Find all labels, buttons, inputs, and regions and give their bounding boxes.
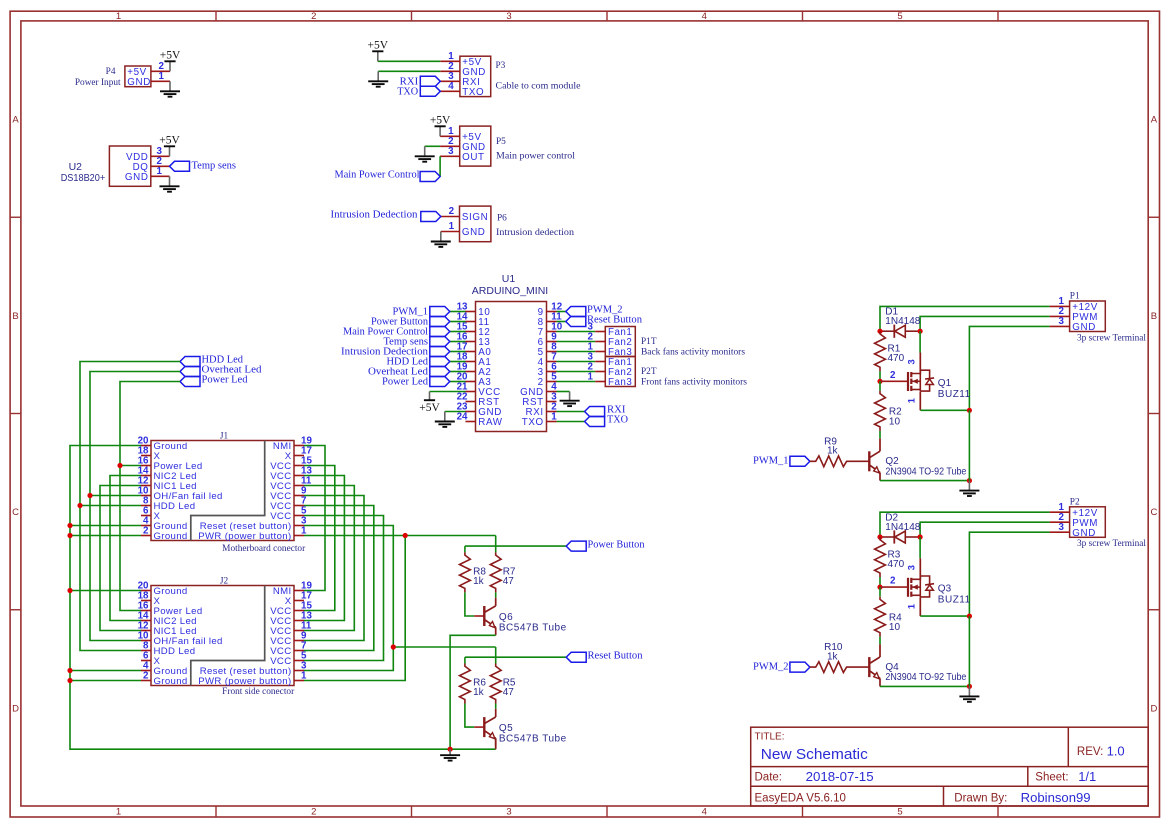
J2 pin 1 stub [294, 680, 304, 682]
svg-text:C: C [12, 507, 19, 518]
wire Intrusion Dedection to U1 [450, 351, 466, 353]
MOSFET Q3 BUZ11 [908, 576, 934, 597]
svg-text:U1: U1 [502, 273, 516, 285]
svg-text:Ground: Ground [154, 676, 188, 687]
wire emitter rail [880, 685, 969, 687]
net port flag Overheat Led at U1 [430, 367, 450, 377]
svg-text:3: 3 [448, 146, 454, 157]
net port flag Reset Button [566, 652, 586, 662]
wire R7 to Q6 collector [495, 592, 497, 597]
svg-text:BC547B Tube: BC547B Tube [499, 733, 567, 744]
U1 pin 12 stub [547, 311, 557, 313]
wire [879, 577, 881, 587]
P1T pin 3 stub [595, 331, 605, 333]
junction [877, 585, 882, 590]
U1 pin 11 stub [547, 321, 557, 323]
P3 pin 3 stub [440, 80, 460, 82]
svg-text:ARDUINO_MINI: ARDUINO_MINI [472, 285, 548, 297]
svg-text:3: 3 [907, 359, 917, 364]
svg-text:GND: GND [462, 227, 486, 238]
net port flag RXI at P3 [420, 76, 440, 86]
J2 pin 11 stub [294, 630, 304, 632]
svg-text:A: A [1151, 114, 1158, 125]
J1 pin 10 stub [141, 495, 151, 497]
J2 pin 4 stub [141, 670, 151, 672]
svg-text:SIGN: SIGN [462, 212, 488, 223]
wire +5V to P3 pin1 [378, 60, 441, 62]
wire D1 to Q1 drain [919, 331, 921, 352]
Q6 base lead [474, 615, 484, 617]
svg-text:10: 10 [889, 622, 901, 633]
svg-text:Drawn By:: Drawn By: [954, 793, 1007, 805]
svg-text:1: 1 [159, 71, 165, 82]
svg-text:470: 470 [888, 559, 905, 570]
wire Reset branch to R5 [393, 646, 495, 648]
J2 pin 17 stub [294, 600, 304, 602]
resistor R3 [875, 537, 886, 577]
Q3 gate lead [880, 586, 908, 588]
J1 pin 11 stub [294, 485, 304, 487]
P6 pin 1 stub [441, 231, 460, 233]
svg-text:GND: GND [1072, 322, 1096, 333]
junction [967, 478, 972, 483]
Q1 source lead [919, 391, 921, 410]
wire to R8 top [464, 546, 466, 552]
J1 pin 5 stub [294, 515, 304, 517]
wire PWM P2 [920, 522, 1050, 537]
svg-text:47: 47 [503, 687, 515, 698]
svg-text:P4: P4 [106, 67, 116, 77]
U1 pin 19 stub [466, 371, 476, 373]
svg-text:47: 47 [503, 576, 515, 587]
svg-text:J1: J1 [220, 432, 229, 442]
P2T pin 1 stub [595, 381, 605, 383]
U1 pin 4 stub [547, 391, 557, 393]
J1 pin 8 stub [141, 505, 151, 507]
IC U2 DS18B20+ [109, 146, 150, 186]
wire [879, 431, 881, 439]
wire Ground branch [70, 535, 141, 537]
wire PWR net to J2 [304, 536, 405, 681]
svg-text:D: D [1150, 703, 1157, 714]
svg-text:1: 1 [301, 525, 307, 536]
Q1 gate lead [880, 380, 908, 382]
wire source to GND net [920, 615, 969, 617]
border tick bottom [411, 806, 413, 817]
P2 pin 1 stub [1050, 511, 1070, 513]
svg-text:B: B [12, 311, 18, 322]
resistor R7 [490, 552, 501, 592]
wire U1 to fan connector row 4 [557, 361, 596, 363]
wire [879, 637, 881, 645]
junction [117, 463, 122, 468]
svg-text:P2T: P2T [641, 367, 657, 377]
J2 pin 2 stub [141, 680, 151, 682]
svg-text:+5V: +5V [368, 40, 389, 52]
junction [77, 503, 82, 508]
P5 pin 1 stub [440, 135, 460, 137]
U1 pin 7 stub [547, 361, 557, 363]
net port flag TXO at U1 [585, 417, 605, 427]
J2 pin 10 stub [141, 640, 151, 642]
svg-text:+5V: +5V [419, 402, 440, 414]
wire Ground branch [70, 670, 141, 672]
wire Power Button to U1 [450, 321, 466, 323]
junction [67, 588, 72, 593]
+5V net flag at P4 [160, 50, 181, 72]
+5V net flag at P5 [430, 115, 451, 137]
svg-text:A: A [12, 114, 19, 125]
ground at P3 [368, 71, 388, 86]
wire Overheat Led to J1 pin10 [90, 495, 141, 497]
U1 pin 16 stub [466, 341, 476, 343]
wire Overheat Led net [90, 372, 180, 641]
J2 pin 12 stub [141, 630, 151, 632]
svg-text:BUZ11: BUZ11 [938, 595, 971, 606]
P4 pin 2 stub [151, 70, 170, 72]
wire +5V to U1 VCC [430, 391, 466, 393]
wire [879, 371, 881, 381]
resistor R8 [460, 552, 471, 592]
svg-text:GND: GND [125, 172, 149, 183]
U1 pin 21 stub [466, 391, 476, 393]
U1 pin 18 stub [466, 361, 476, 363]
J1 pin 13 stub [294, 475, 304, 477]
P1 pin 2 stub [1050, 315, 1070, 317]
U1 pin 24 stub [466, 421, 476, 423]
border tick top [802, 11, 804, 21]
svg-text:C: C [1150, 507, 1157, 518]
svg-text:2: 2 [311, 807, 316, 818]
transistor Q4 2N3904 [869, 644, 880, 686]
svg-text:D: D [12, 703, 19, 714]
resistor R2 [875, 391, 886, 431]
P1 pin 1 stub [1050, 305, 1070, 307]
J1 pin 4 stub [141, 525, 151, 527]
U2 pin 3 stub [151, 155, 170, 157]
svg-text:TXO: TXO [462, 87, 484, 98]
connector P1T [605, 327, 635, 357]
svg-text:BC547B Tube: BC547B Tube [499, 622, 567, 633]
net port flag TXO at P3 [420, 86, 440, 96]
connector P6 [460, 206, 491, 242]
wire +12V P1 [880, 306, 1050, 331]
J1 pin 1 stub [294, 535, 304, 537]
J1 pin 2 stub [141, 535, 151, 537]
U1 pin 22 stub [466, 401, 476, 403]
svg-text:Power Button: Power Button [588, 539, 645, 550]
svg-text:2: 2 [890, 576, 896, 587]
J2 pin 7 stub [294, 650, 304, 652]
J2 pin 6 stub [141, 660, 151, 662]
connector J1 [151, 441, 294, 541]
junction [403, 533, 408, 538]
connector P2T [605, 357, 635, 387]
J2 pin 15 stub [294, 610, 304, 612]
Q3 drain lead [919, 558, 921, 579]
Q3 source lead [919, 597, 921, 616]
svg-text:24: 24 [457, 411, 468, 422]
svg-text:Q6: Q6 [499, 612, 513, 623]
svg-text:1: 1 [907, 604, 917, 609]
svg-text:1: 1 [116, 807, 121, 818]
wire +12V P2 [880, 512, 1050, 537]
resistor R6 [460, 664, 471, 704]
wire emitter rail [880, 480, 969, 482]
svg-text:1/1: 1/1 [1078, 769, 1096, 784]
J2 pin 9 stub [294, 640, 304, 642]
ground at U2 GND [160, 176, 180, 191]
wire PWR to R7 [495, 536, 497, 553]
svg-text:TXO: TXO [522, 417, 544, 428]
wire U1 to fan connector row 1 [557, 331, 596, 333]
svg-text:1k: 1k [473, 687, 485, 698]
P3 pin 4 stub [440, 90, 460, 92]
diode D1 1N4148 [880, 325, 920, 338]
J1 internal outline [191, 441, 265, 541]
U1 pin 15 stub [466, 331, 476, 333]
U1 pin 17 stub [466, 351, 476, 353]
wire U1 GND right [557, 391, 570, 393]
diode D2 1N4148 [880, 530, 920, 543]
svg-text:Intrusion Dedection: Intrusion Dedection [331, 210, 418, 221]
border tick top [997, 11, 999, 21]
+5V net flag at P3 [368, 40, 389, 62]
svg-text:Power Input: Power Input [75, 78, 121, 88]
svg-text:RAW: RAW [478, 417, 502, 428]
wire J1-J2 net VCC [304, 466, 335, 611]
svg-text:1.0: 1.0 [1107, 743, 1125, 758]
resistor R5 [490, 664, 501, 704]
svg-text:2: 2 [449, 206, 455, 217]
net port flag Reset Button at U1 [566, 317, 586, 327]
svg-text:2: 2 [143, 525, 149, 536]
P3 pin 2 stub [440, 70, 460, 72]
P1T pin 1 stub [595, 351, 605, 353]
junction [877, 534, 882, 539]
border tick top [606, 11, 608, 21]
net port flag PWM_1 [790, 456, 810, 466]
J2 pin 13 stub [294, 620, 304, 622]
border tick right [1148, 609, 1159, 611]
wire Temp sens to U1 [450, 341, 466, 343]
connector P5 [460, 126, 491, 166]
svg-text:Motherboard conector: Motherboard conector [222, 544, 306, 554]
net port flag Power Led [180, 377, 200, 387]
wire U1 GND [445, 411, 466, 413]
J1 pin 20 stub [141, 445, 151, 447]
net port flag Power Button [566, 541, 586, 551]
border tick top [215, 11, 217, 21]
wire [879, 587, 881, 597]
wire [879, 381, 881, 391]
svg-text:2: 2 [311, 11, 316, 22]
net port flag PWM_2 at U1 [566, 307, 586, 317]
ground below Q2 [959, 481, 979, 496]
ground at bottom rail [440, 749, 460, 760]
svg-text:1: 1 [449, 221, 455, 232]
P4 pin 1 stub [151, 80, 170, 82]
svg-text:P6: P6 [497, 213, 507, 223]
wire U1 to fan connector row 5 [557, 371, 596, 373]
svg-text:3: 3 [1059, 522, 1065, 533]
border tick bottom [997, 806, 999, 817]
U1 pin 23 stub [466, 411, 476, 413]
svg-text:Main power control: Main power control [496, 151, 575, 161]
svg-text:OUT: OUT [462, 152, 484, 163]
svg-text:P5: P5 [496, 137, 506, 147]
wire Power Led to J1 pin16 [120, 465, 141, 467]
svg-text:Front side conector: Front side conector [222, 687, 295, 697]
border tick right [1148, 413, 1159, 415]
svg-text:Q1: Q1 [938, 378, 952, 389]
svg-text:Reset Button: Reset Button [588, 650, 643, 661]
wire Main Power Control to U1 [450, 331, 466, 333]
ground at U1 GND left [435, 412, 455, 427]
wire GND P2 [969, 532, 1049, 616]
wire U1 to fan connector row 2 [557, 341, 596, 343]
svg-text:Q5: Q5 [499, 723, 513, 734]
Q1 drain lead [919, 353, 921, 374]
wire source to GND net [920, 409, 969, 411]
wire J1-J2 net VCC [304, 476, 344, 621]
IC U1 ARDUINO_MINI [476, 302, 547, 432]
Q5 base lead [474, 726, 484, 728]
U1 pin 2 stub [547, 411, 557, 413]
svg-text:J2: J2 [220, 577, 229, 587]
U1 pin 20 stub [466, 381, 476, 383]
svg-text:+5V: +5V [160, 50, 181, 62]
svg-text:Front fans activity monitors: Front fans activity monitors [641, 376, 747, 387]
junction [967, 408, 972, 413]
J2 pin 8 stub [141, 650, 151, 652]
net port flag HDD Led at U1 [430, 357, 450, 367]
P2T pin 3 stub [595, 361, 605, 363]
net port flag Power Led at U1 [430, 377, 450, 387]
svg-text:3: 3 [1059, 316, 1065, 327]
transistor Q2 2N3904 [869, 439, 880, 481]
net port flag Main Power Control [420, 172, 440, 182]
net port flag Temp sens at U1 [430, 337, 450, 347]
P5 pin 3 stub [440, 155, 460, 157]
junction [877, 329, 882, 334]
U2 pin 1 stub [151, 175, 170, 177]
svg-text:P1T: P1T [641, 337, 657, 347]
connector P2 3p screw terminal [1070, 507, 1106, 538]
wire PWR net J1 [304, 535, 496, 537]
svg-text:B: B [1151, 311, 1157, 322]
svg-text:+5V: +5V [159, 135, 180, 147]
U1 pin 1 stub [547, 421, 557, 423]
wire HDD Led to U1 [450, 361, 466, 363]
junction [967, 684, 972, 689]
net port flag Overheat Led [180, 367, 200, 377]
svg-text:1: 1 [907, 398, 917, 403]
svg-text:Power Led: Power Led [202, 375, 249, 386]
P2 pin 3 stub [1050, 531, 1070, 533]
J1 pin 7 stub [294, 505, 304, 507]
wire Ground net backbone [70, 446, 496, 750]
border tick left [10, 413, 21, 415]
junction [87, 493, 92, 498]
wire GND vertical [968, 616, 970, 686]
wire U1 pin9 to PWM_2 [557, 311, 566, 313]
svg-text:1N4148: 1N4148 [885, 522, 920, 533]
junction [67, 678, 72, 683]
svg-text:2018-07-15: 2018-07-15 [806, 769, 874, 784]
svg-text:1k: 1k [827, 446, 839, 457]
resistor R4 [875, 597, 886, 637]
J2 pin 20 stub [141, 590, 151, 592]
svg-text:1: 1 [301, 670, 307, 681]
svg-text:Power Led: Power Led [382, 377, 429, 388]
net port flag Main Power Control at U1 [430, 327, 450, 337]
svg-text:Cable to com module: Cable to com module [496, 82, 581, 92]
svg-text:PWR (power button): PWR (power button) [198, 531, 291, 542]
border tick top [411, 11, 413, 21]
wire Power Led net [120, 382, 180, 611]
wire J1-J2 net VCC [304, 486, 354, 631]
wire Overheat Led to U1 [450, 371, 466, 373]
wire GND to P5 pin2 [425, 145, 440, 147]
svg-text:P1: P1 [1070, 292, 1080, 302]
transistor Q6 [484, 598, 495, 636]
wire R8 to Q6 base [465, 592, 474, 616]
U2 pin 2 stub [151, 165, 170, 167]
J1 pin 9 stub [294, 495, 304, 497]
svg-text:1: 1 [588, 371, 594, 382]
svg-text:2: 2 [143, 670, 149, 681]
U1 pin 6 stub [547, 371, 557, 373]
wire J1-J2 net NMI [304, 446, 325, 591]
svg-text:3: 3 [506, 11, 511, 22]
svg-text:Sheet:: Sheet: [1035, 772, 1068, 784]
svg-text:3p screw Terminal: 3p screw Terminal [1077, 333, 1146, 343]
wire Ground branch [70, 525, 141, 527]
svg-text:DS18B20+: DS18B20+ [61, 172, 106, 184]
J1 pin 18 stub [141, 455, 151, 457]
wire to R6 top [464, 657, 466, 663]
U1 pin 10 stub [547, 331, 557, 333]
svg-text:3: 3 [506, 807, 511, 818]
svg-text:PWM_1: PWM_1 [753, 456, 789, 467]
U1 pin 5 stub [547, 381, 557, 383]
wire Reset Button line [465, 656, 566, 658]
U1 pin 9 stub [547, 341, 557, 343]
junction [448, 747, 453, 752]
U1 pin 3 stub [547, 401, 557, 403]
net port flag RXI at U1 [585, 407, 605, 417]
wire NIC2 Led net [110, 476, 141, 621]
wire HDD Led net [80, 362, 180, 651]
U1 pin 8 stub [547, 351, 557, 353]
wire NIC1 Led net [100, 486, 141, 631]
J1 pin 14 stub [141, 475, 151, 477]
J1 pin 19 stub [294, 445, 304, 447]
net port flag Intrusion Dedection at U1 [430, 347, 450, 357]
wire Ground branch [70, 590, 141, 592]
junction [967, 614, 972, 619]
svg-text:Date:: Date: [755, 772, 783, 784]
svg-text:2: 2 [890, 370, 896, 381]
svg-text:TITLE:: TITLE: [755, 731, 785, 742]
svg-text:P3: P3 [496, 61, 506, 71]
wire Reset net J1-J2 [304, 526, 393, 671]
junction [391, 644, 396, 649]
svg-text:4: 4 [448, 81, 454, 92]
net port flag PWM_2 [790, 662, 810, 672]
svg-text:2N3904 TO-92 Tube: 2N3904 TO-92 Tube [885, 672, 966, 683]
